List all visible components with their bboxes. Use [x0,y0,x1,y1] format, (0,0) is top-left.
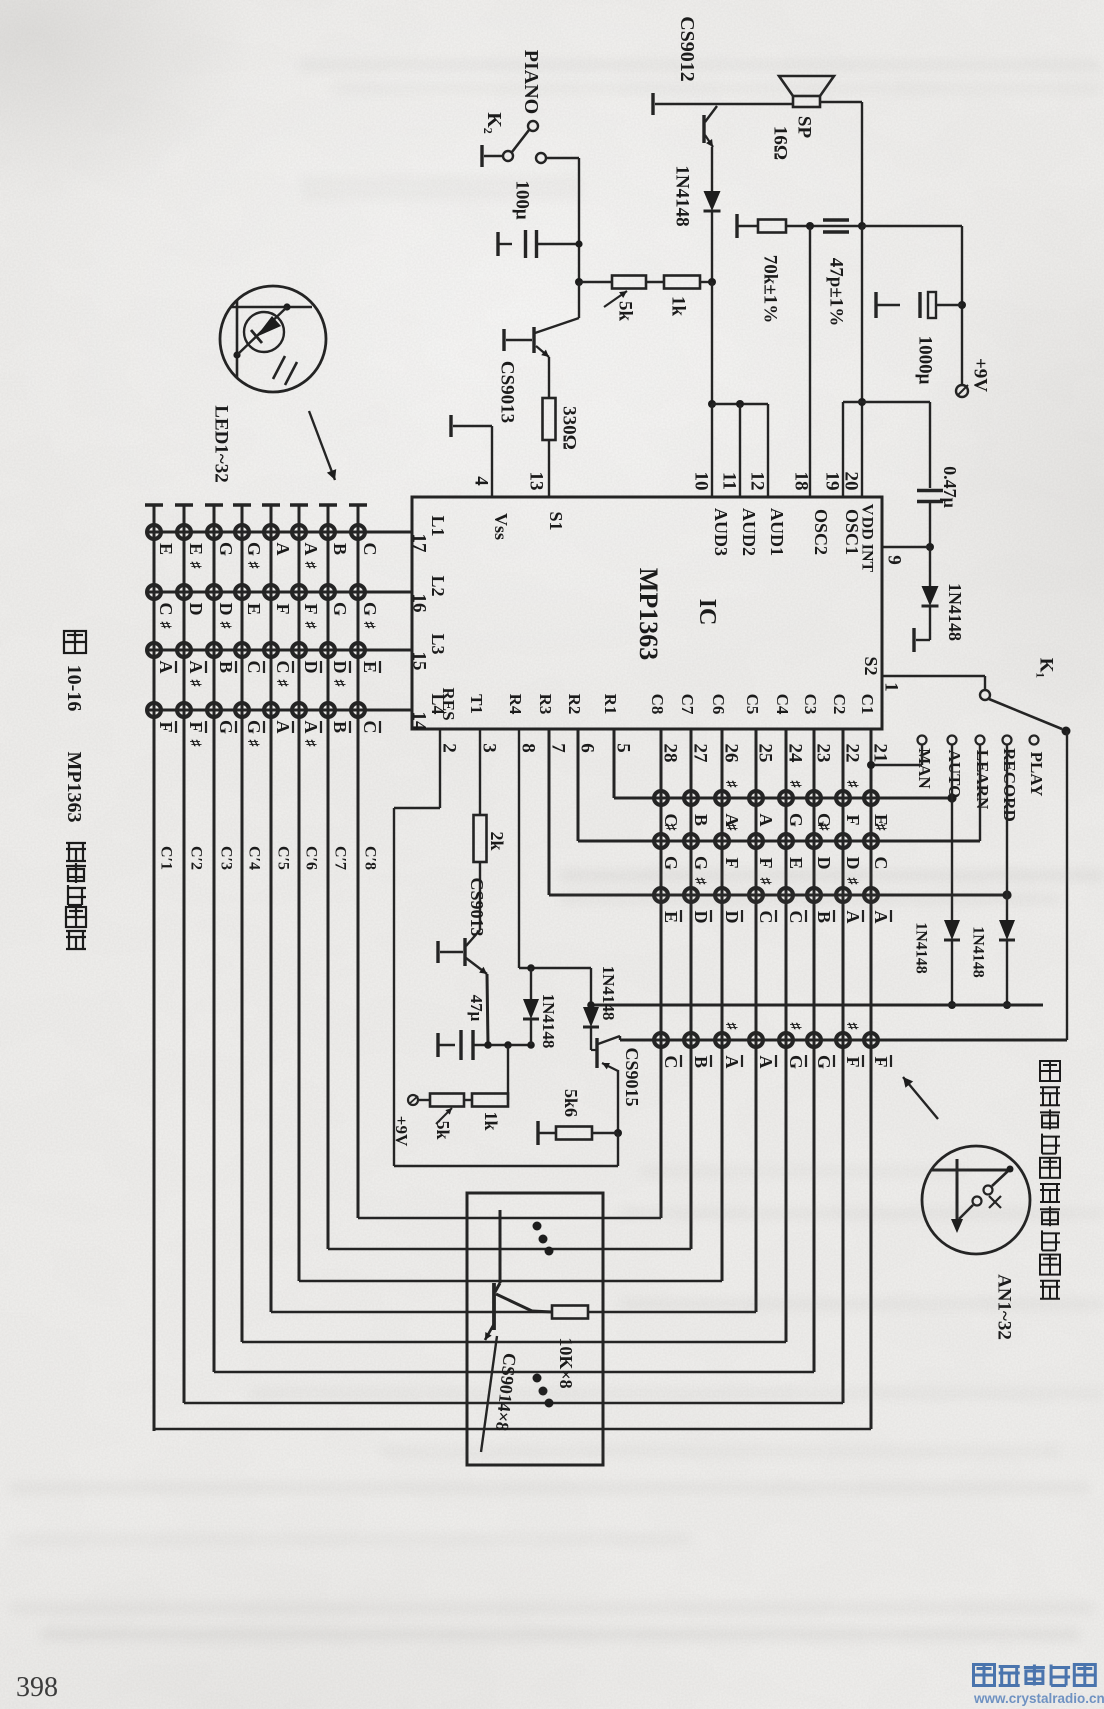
svg-text:CS9015: CS9015 [622,1047,642,1106]
svg-text:G: G [691,856,711,870]
svg-text:♯: ♯ [815,824,830,832]
svg-text:AUTO: AUTO [945,750,964,799]
svg-text:330Ω: 330Ω [559,406,580,450]
svg-text:F: F [186,722,206,733]
svg-text:24: 24 [785,744,806,764]
svg-text:MP1363: MP1363 [63,751,85,822]
svg-text:A: A [756,814,776,827]
svg-text:♯: ♯ [872,824,887,832]
svg-text:♯: ♯ [331,680,346,688]
svg-text:C: C [786,911,806,924]
svg-text:+9V: +9V [970,358,991,392]
svg-text:A: A [156,661,176,674]
svg-text:7: 7 [548,743,569,753]
svg-text:AUD1: AUD1 [767,508,787,556]
svg-text:27: 27 [690,744,711,764]
svg-text:21: 21 [870,744,891,763]
svg-text:C6: C6 [709,694,728,715]
svg-text:398: 398 [16,1672,58,1703]
svg-text:LED1~32: LED1~32 [211,405,232,482]
svg-text:C′6: C′6 [303,846,320,870]
svg-text:A: A [273,721,293,734]
svg-text:47p±1%: 47p±1% [826,258,847,327]
svg-text:23: 23 [813,744,834,763]
svg-text:14: 14 [409,712,430,732]
svg-text:C: C [756,911,776,924]
svg-text:C′5: C′5 [275,846,292,870]
svg-text:3: 3 [479,743,500,753]
svg-text:AUD3: AUD3 [711,508,731,556]
svg-text:A: A [843,911,863,924]
svg-text:F: F [301,604,321,615]
svg-text:RECORD: RECORD [1000,748,1019,822]
svg-text:L1: L1 [428,515,448,536]
svg-text:F: F [871,1057,891,1068]
svg-text:♯: ♯ [302,562,317,570]
svg-text:A: A [301,543,321,556]
svg-text:F: F [756,858,776,869]
svg-text:C2: C2 [830,694,849,715]
svg-text:♯: ♯ [245,562,260,570]
svg-text:1N4148: 1N4148 [672,165,693,226]
svg-text:A: A [722,1056,742,1069]
svg-text:G: G [330,602,350,616]
svg-text:www.crystalradio.cn: www.crystalradio.cn [973,1691,1104,1706]
svg-text:D: D [301,661,321,674]
svg-text:C′4: C′4 [246,846,263,870]
svg-text:AUD2: AUD2 [739,508,759,556]
svg-text:70k±1%: 70k±1% [760,255,781,324]
svg-text:C′1: C′1 [158,846,175,870]
svg-text:4: 4 [471,476,492,486]
svg-text:D: D [691,911,711,924]
svg-text:♯: ♯ [245,740,260,748]
svg-text:D: D [216,603,236,616]
svg-text:1N4148: 1N4148 [539,994,558,1049]
svg-text:F: F [843,815,863,826]
svg-text:♯: ♯ [302,740,317,748]
svg-text:♯: ♯ [187,562,202,570]
svg-text:MAN: MAN [915,748,934,789]
svg-text:F: F [843,1057,863,1068]
svg-text:C: C [871,857,891,870]
svg-text:1N4148: 1N4148 [913,922,930,974]
svg-text:1N4148: 1N4148 [970,926,987,978]
svg-text:5k: 5k [615,301,636,322]
svg-text:♯: ♯ [361,622,376,630]
svg-text:1k: 1k [668,296,689,317]
svg-text:♯: ♯ [187,680,202,688]
svg-text:11: 11 [719,472,740,490]
svg-text:E: E [661,911,681,923]
svg-text:G: G [244,542,264,556]
svg-text:2k: 2k [487,831,507,850]
svg-text:5: 5 [613,743,634,753]
svg-text:47μ: 47μ [467,995,486,1022]
svg-text:C8: C8 [648,694,667,715]
svg-text:F: F [156,722,176,733]
svg-text:CS9013: CS9013 [467,877,487,936]
svg-text:A: A [301,721,321,734]
svg-text:C4: C4 [773,694,792,715]
svg-text:C: C [360,721,380,734]
svg-text:V DD INT: V DD INT [859,504,876,573]
svg-text:G: G [786,813,806,827]
svg-text:♯: ♯ [274,680,289,688]
svg-text:6: 6 [577,743,598,753]
svg-text:16: 16 [409,594,430,613]
svg-text:C′2: C′2 [188,846,205,870]
svg-text:B: B [691,1056,711,1068]
svg-text:A: A [186,661,206,674]
svg-text:♯: ♯ [187,740,202,748]
svg-text:LEARN: LEARN [973,750,992,810]
svg-text:1N4148: 1N4148 [599,966,618,1021]
svg-text:10: 10 [691,472,712,491]
svg-text:B: B [330,721,350,733]
svg-text:C′7: C′7 [332,846,349,870]
svg-text:E: E [786,857,806,869]
svg-text:F: F [722,858,742,869]
svg-text:C: C [661,1056,681,1069]
svg-text:C7: C7 [678,694,697,715]
svg-text:2: 2 [439,743,460,753]
svg-text:Vss: Vss [491,513,511,540]
svg-text:R2: R2 [565,694,584,715]
svg-text:C′3: C′3 [218,846,235,870]
svg-text:A: A [273,543,293,556]
svg-text:A: A [756,1056,776,1069]
svg-text:12: 12 [747,472,768,491]
svg-text:8: 8 [518,743,539,753]
svg-text:C1: C1 [858,694,877,715]
svg-text:17: 17 [409,534,430,554]
svg-text:1: 1 [881,682,902,692]
svg-text:22: 22 [842,744,863,763]
svg-text:♯: ♯ [217,622,232,630]
svg-text:♯: ♯ [787,781,802,789]
svg-text:MP1363: MP1363 [634,568,663,660]
svg-text:9: 9 [884,555,905,565]
svg-text:RES: RES [439,687,458,720]
svg-text:16Ω: 16Ω [770,126,791,160]
svg-text:25: 25 [755,744,776,763]
svg-text:D: D [186,603,206,616]
svg-text:C: C [244,661,264,674]
svg-text:B: B [814,911,834,923]
svg-text:A: A [871,911,891,924]
svg-text:♯: ♯ [787,1023,802,1031]
svg-text:OSC2: OSC2 [811,509,831,555]
svg-text:E: E [244,603,264,615]
svg-text:5k6: 5k6 [561,1089,581,1117]
svg-text:♯: ♯ [844,781,859,789]
svg-text:PLAY: PLAY [1027,752,1046,797]
svg-text:R3: R3 [536,694,555,715]
svg-text:1k: 1k [481,1111,501,1130]
svg-text:♯: ♯ [723,1023,738,1031]
svg-text:C: C [156,603,176,616]
svg-text:IC: IC [694,599,720,626]
svg-text:K₁: K₁ [1036,658,1057,678]
svg-text:C3: C3 [801,694,820,715]
svg-text:B: B [691,814,711,826]
svg-text:10-16: 10-16 [63,665,85,712]
svg-text:T1: T1 [467,694,486,714]
svg-text:G: G [216,542,236,556]
svg-text:D: D [722,911,742,924]
svg-text:18: 18 [791,472,812,491]
svg-text:K₂: K₂ [483,112,505,134]
svg-text:♯: ♯ [723,781,738,789]
svg-text:L3: L3 [428,633,448,654]
svg-text:1N4148: 1N4148 [945,583,965,641]
svg-text:G: G [360,602,380,616]
svg-text:1000μ: 1000μ [915,336,936,385]
svg-text:♯: ♯ [662,824,677,832]
svg-text:S1: S1 [546,511,566,530]
svg-text:C: C [360,543,380,556]
svg-text:♯: ♯ [723,824,738,832]
svg-text:E: E [360,661,380,673]
svg-text:S2: S2 [861,656,881,675]
svg-text:13: 13 [526,472,547,491]
svg-text:26: 26 [721,744,742,763]
svg-text:♯: ♯ [157,622,172,630]
svg-text:SP: SP [794,116,815,139]
svg-text:C′8: C′8 [362,846,379,870]
svg-text:C: C [273,661,293,674]
svg-text:E: E [186,543,206,555]
svg-text:G: G [244,720,264,734]
svg-text:C5: C5 [743,694,762,715]
svg-text:CS9013: CS9013 [497,361,518,423]
svg-text:B: B [216,661,236,673]
svg-text:R4: R4 [506,694,525,715]
svg-text:D: D [330,661,350,674]
svg-text:15: 15 [409,652,430,671]
svg-text:G: G [786,1055,806,1069]
svg-text:10K×8: 10K×8 [556,1337,576,1388]
svg-text:D: D [843,857,863,870]
svg-text:F: F [273,604,293,615]
svg-text:R1: R1 [601,694,620,715]
svg-text:G: G [814,1055,834,1069]
svg-text:D: D [814,857,834,870]
svg-text:♯: ♯ [844,1023,859,1031]
svg-text:G: G [661,856,681,870]
svg-text:L2: L2 [428,575,448,596]
svg-text:CS9012: CS9012 [676,16,698,82]
svg-text:♯: ♯ [302,622,317,630]
svg-text:G: G [216,720,236,734]
svg-text:28: 28 [660,744,681,763]
svg-text:B: B [330,543,350,555]
svg-text:0.47μ: 0.47μ [940,466,960,508]
svg-text:19: 19 [822,472,843,491]
svg-text:E: E [156,543,176,555]
